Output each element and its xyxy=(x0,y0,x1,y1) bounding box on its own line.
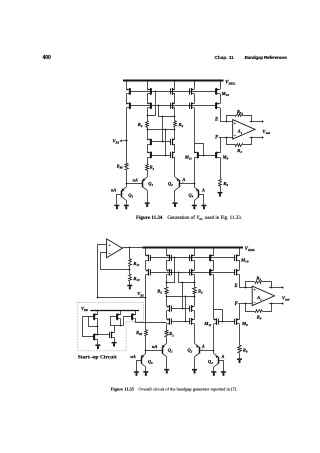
wire N1 source to ground fig35 xyxy=(97,339,99,344)
wire P1 drain to N1 fig35 xyxy=(97,319,99,335)
wire R6 to ground (fig34) xyxy=(220,186,222,192)
resistor R2 right (fig34) xyxy=(174,121,177,128)
wire Q3 base to ground (fig35) xyxy=(137,361,142,372)
pmos cascode col4 bottom (fig35) xyxy=(213,260,215,270)
svg-text:A: A xyxy=(221,354,225,359)
wire VB1 net fig35 xyxy=(98,297,146,299)
wire Q2 collector to ground (fig35) xyxy=(194,357,196,369)
wire output plus (fig34) xyxy=(250,121,263,123)
svg-text:400: 400 xyxy=(43,55,52,61)
wire R10 to ground fig35 xyxy=(129,281,131,284)
wire Q4 collector down (fig34) xyxy=(194,200,196,204)
resistor R2 right (fig35) xyxy=(193,288,197,294)
wire Q2 base to node A line (fig34) xyxy=(179,183,194,185)
wire M11 M9 gate line (fig35) xyxy=(218,321,235,323)
wire N2 source to ground fig35 xyxy=(114,337,116,342)
pmos mirror M10 top (fig34) xyxy=(220,81,222,89)
op-amp A1 (fig34) xyxy=(233,120,255,140)
svg-text:nA: nA xyxy=(130,354,135,359)
wire VDDL supply rail (fig35) xyxy=(143,247,244,249)
resistor R2 left (fig35) xyxy=(165,288,169,294)
svg-text:nA: nA xyxy=(133,177,138,182)
pmos mirror col3 top (fig34) xyxy=(174,81,176,89)
resistor R10 fig35 xyxy=(129,275,132,282)
resistor R1 (fig34) xyxy=(146,164,149,171)
ground at N2 fig35 xyxy=(112,342,117,344)
ground at Q4 base (fig35) xyxy=(221,371,226,373)
ground at Q2 (fig34) xyxy=(173,202,178,204)
resistor R11 fig35 xyxy=(129,259,132,267)
wire R4 to output (fig35) xyxy=(263,304,272,312)
pmos P2 startup fig35 xyxy=(120,310,122,315)
wire col2 to R2 left (fig35) xyxy=(166,274,168,287)
wire col4 drain down to M11 (fig34) xyxy=(194,108,196,153)
wire diode link row2 to col3 drain (fig35) xyxy=(179,273,195,283)
wire Q4 base to ground (fig35) xyxy=(219,361,224,372)
pmos mirror M10 top (fig35) xyxy=(239,248,241,256)
nmos right bottom (fig34) xyxy=(174,144,176,153)
resistor RM (fig34) xyxy=(125,164,129,170)
ground at Q2 (fig35) xyxy=(192,369,197,371)
pmos cascode M10 bottom (fig34) xyxy=(220,94,222,104)
resistor R3 (fig35) xyxy=(255,281,263,284)
transistor Q2 (fig35) xyxy=(195,343,200,347)
wire RM to node below (fig35) xyxy=(145,336,147,353)
wire output minus (fig34) xyxy=(250,137,263,139)
wire feedback bottom (fig35) xyxy=(246,304,255,312)
wire P2 drain down fig35 xyxy=(120,319,122,325)
wire col4 drain down to M11 (fig35) xyxy=(213,274,215,319)
wire P1 gate diode loop fig35 xyxy=(89,317,98,327)
pmos mirror col3 top (fig35) xyxy=(194,248,196,256)
wire nmos row3 gate line (fig35) xyxy=(171,308,190,310)
wire R4 to output (fig34) xyxy=(243,138,252,145)
wire diode link row2 to col3 drain (fig34) xyxy=(159,106,175,117)
pmos cascode M10 bottom (fig35) xyxy=(239,260,241,270)
pmos mirror col2 top (fig34) xyxy=(147,81,149,89)
wire R2 left to nmos (fig34) xyxy=(147,127,149,139)
resistor R6 (fig34) xyxy=(219,179,222,187)
wire col3 to R2 right (fig34) xyxy=(174,108,176,121)
wire node E to amp (fig35) xyxy=(240,287,253,289)
svg-text:E: E xyxy=(234,284,238,289)
pmos cascode col3 bottom (fig34) xyxy=(174,94,176,104)
ground at Q1 (fig34) xyxy=(145,202,150,204)
transistor M11 (fig35) xyxy=(214,319,217,321)
wire R3 to output (fig35) xyxy=(263,282,272,288)
pmos cascode col2 bottom (fig35) xyxy=(166,260,168,270)
op-amp A2 regulation amp fig35 xyxy=(107,239,123,258)
nmos left bottom (fig35) xyxy=(166,311,168,320)
nmos left bottom (fig34) xyxy=(147,144,149,153)
resistor R2 left (fig34) xyxy=(146,121,149,128)
svg-text:Bandgap References: Bandgap References xyxy=(245,55,288,60)
wire pmos row2 gate line (fig35) xyxy=(150,272,235,274)
wire col1 branch down (fig34) xyxy=(126,108,128,163)
wire VDD rail startup fig35 xyxy=(90,310,139,312)
nmos cascode right top (fig34) xyxy=(172,139,175,141)
wire col1 branch down (fig35) xyxy=(145,274,147,329)
op-amp A1 (fig35) xyxy=(252,286,274,306)
transistor Q2 (fig34) xyxy=(175,177,180,181)
start-up circuit dashed box fig35 xyxy=(78,302,143,351)
ground at Q4 collector (fig34) xyxy=(192,205,197,207)
wire feedback top (fig35) xyxy=(246,282,255,288)
wire feedback to A2 inverting input fig35 xyxy=(101,253,130,270)
pmos cascode col4 bottom (fig34) xyxy=(194,94,196,104)
wire R11 to R10 node fig35 xyxy=(129,266,131,274)
wire A2 output to VDDL rail fig35 xyxy=(122,247,142,249)
wire node E to amp (fig34) xyxy=(220,121,233,123)
ground below R10 fig35 xyxy=(127,285,132,287)
wire P3 gate tap fig35 xyxy=(124,317,132,326)
wire Q1 collector to ground (fig35) xyxy=(166,357,168,369)
pmos P3 startup fig35 xyxy=(135,310,137,315)
wire nmos row3 gate line (fig34) xyxy=(152,141,171,143)
transistor Q1 (fig35) xyxy=(162,343,167,347)
wire A2 noninverting input fig35 xyxy=(98,245,107,298)
wire M10 drain to node E (fig34) xyxy=(220,108,222,121)
transistor M9 (fig35) xyxy=(237,319,240,321)
wire node F to amp (fig34) xyxy=(219,137,233,139)
ground at Q3 base (fig34) xyxy=(114,205,119,207)
transistor Q3 (fig35) xyxy=(141,354,146,358)
pmos cascode col3 bottom (fig35) xyxy=(194,260,196,270)
wire Q4 base to ground (fig34) xyxy=(199,195,204,205)
pmos mirror col4 top (fig35) xyxy=(213,248,215,256)
pmos mirror col4 top (fig34) xyxy=(194,81,196,89)
wire nmos row3 gate tap (fig34) xyxy=(162,117,164,142)
transistor Q1 (fig34) xyxy=(143,177,148,181)
svg-text:Start–up Circuit: Start–up Circuit xyxy=(78,354,117,360)
wire nmos right to Q2 (fig34) xyxy=(174,157,176,177)
svg-text:VDDL: VDDL xyxy=(225,80,235,85)
ground at R6 (fig34) xyxy=(218,192,223,194)
wire R1 to Q1 (fig34) xyxy=(147,170,149,177)
wire startup node line fig35 xyxy=(110,325,124,327)
wire N2 gate to P1 drain fig35 xyxy=(98,334,110,336)
wire RM to node below (fig34) xyxy=(126,170,128,187)
transistor Q4 (fig34) xyxy=(194,187,199,191)
transistor M11 diode loop (fig34) xyxy=(195,144,204,156)
wire node F to M9 (fig35) xyxy=(239,304,241,320)
pmos cascode col1 bottom (fig34) xyxy=(126,94,128,104)
wire M10 drain to node E (fig35) xyxy=(239,274,241,287)
ground at R6 (fig35) xyxy=(237,358,242,360)
wire N2 drain up fig35 xyxy=(114,325,116,332)
resistor RM (fig35) xyxy=(145,330,148,337)
pmos cascode col2 bottom (fig34) xyxy=(147,94,149,104)
ground at Q4 collector (fig35) xyxy=(211,371,216,373)
wire R2 right to nmos (fig35) xyxy=(194,294,196,306)
wire R6 to ground (fig35) xyxy=(239,353,241,359)
svg-text:Figure 11.34 Generation of VB: Figure 11.34 Generation of VB1, used in … xyxy=(136,216,242,221)
wire VDDL supply rail (fig34) xyxy=(123,80,224,82)
resistor R3 (fig34) xyxy=(236,114,243,117)
wire Q1 collector to ground (fig34) xyxy=(147,190,149,202)
svg-text:nA: nA xyxy=(152,344,157,349)
wire node F to amp (fig35) xyxy=(238,303,252,305)
wire Q1 base line (fig34) xyxy=(126,183,142,185)
wire M11 M9 gate line (fig34) xyxy=(199,155,216,157)
pmos P1 startup diode-connected fig35 xyxy=(97,310,99,315)
nmos right bottom (fig35) xyxy=(194,311,196,320)
wire nmos right to Q2 (fig35) xyxy=(194,324,196,344)
wire nmos row4 gate line (fig35) xyxy=(171,321,190,323)
transistor M9 (fig34) xyxy=(217,152,220,154)
pmos mirror col1 top (fig34) xyxy=(126,81,128,89)
svg-text:nA: nA xyxy=(111,187,116,192)
ground at N1 fig35 xyxy=(95,344,100,346)
wire R2 bottoms tie line (fig35) xyxy=(167,296,195,298)
wire R2 bottoms tie line (fig34) xyxy=(147,129,175,131)
transistor Q3 (fig34) xyxy=(122,187,127,191)
wire Q2 collector to ground (fig34) xyxy=(174,190,176,202)
wire output plus (fig35) xyxy=(269,287,282,289)
nmos N1 startup fig35 xyxy=(95,334,98,336)
transistor M11 diode loop (fig35) xyxy=(214,310,223,322)
wire nmos left to R1 (fig35) xyxy=(166,324,168,331)
wire nmos row4 gate tap (fig34) xyxy=(165,130,167,155)
resistor R6 (fig35) xyxy=(238,346,242,353)
ground at Q3 collector (fig34) xyxy=(124,205,129,207)
svg-text:VDDL: VDDL xyxy=(245,247,255,252)
transistor M11 (fig34) xyxy=(194,152,197,154)
svg-text:Chap. 11: Chap. 11 xyxy=(215,55,235,60)
pmos mirror col1 top (fig35) xyxy=(145,248,147,256)
wire Q3 collector down (fig34) xyxy=(126,200,128,204)
wire node F to M9 (fig34) xyxy=(220,137,222,153)
ground at Q3 collector (fig35) xyxy=(143,371,148,373)
wire R3 to output (fig34) xyxy=(243,116,252,122)
wire nmos row4 gate tap (fig35) xyxy=(185,296,187,321)
wire M11 source to Q4 (fig34) xyxy=(194,157,196,187)
wire pmos row2 gate line (fig34) xyxy=(131,105,216,107)
wire M9 source to R6 (fig35) xyxy=(239,324,241,346)
nmos cascode left top (fig35) xyxy=(167,306,170,308)
wire A2 output to R11 fig35 xyxy=(129,248,131,259)
pmos mirror col2 top (fig35) xyxy=(166,248,168,256)
wire diode link row1 to col2 drain (fig34) xyxy=(148,92,156,116)
ground at Q4 base (fig34) xyxy=(201,205,206,207)
wire pmos row1 gate line (fig34) xyxy=(131,91,216,93)
svg-text:E: E xyxy=(214,118,218,123)
wire R1 to Q1 (fig35) xyxy=(166,337,168,344)
wire startup output to core fig35 xyxy=(136,319,167,323)
svg-text:A: A xyxy=(201,187,205,192)
wire R2 right to nmos (fig34) xyxy=(174,127,176,139)
wire M11 source to Q4 (fig35) xyxy=(213,324,215,354)
wire Q3 collector down (fig35) xyxy=(145,367,147,371)
wire col2 to R2 left (fig34) xyxy=(147,108,149,121)
nmos N2 startup fig35 xyxy=(111,332,114,334)
wire N1 gate loop fig35 xyxy=(83,317,94,337)
wire nmos left to R1 (fig34) xyxy=(147,157,149,164)
nmos cascode left top (fig34) xyxy=(147,139,150,141)
wire output minus (fig35) xyxy=(269,303,282,305)
ground at Q3 base (fig35) xyxy=(134,371,139,373)
wire R2 left to nmos (fig35) xyxy=(166,294,168,306)
svg-text:A: A xyxy=(181,177,185,182)
resistor R1 (fig35) xyxy=(165,331,169,337)
wire M9 source to R6 (fig34) xyxy=(220,157,222,179)
wire Q3 base to ground (fig34) xyxy=(117,195,122,205)
wire pmos row1 gate line (fig35) xyxy=(150,257,235,259)
wire nmos row4 gate line (fig34) xyxy=(152,155,171,157)
ground at Q1 (fig35) xyxy=(164,369,169,371)
wire Q1 base line (fig35) xyxy=(146,350,162,352)
svg-text:Figure 11.35 Overall circuit: Figure 11.35 Overall circuit of the band… xyxy=(111,387,238,392)
svg-text:A: A xyxy=(201,343,205,348)
wire Q4 collector down (fig35) xyxy=(213,367,215,371)
pmos cascode col1 bottom (fig35) xyxy=(145,260,147,270)
wire Q2 base to node A line (fig35) xyxy=(199,350,214,352)
wire col3 to R2 right (fig35) xyxy=(194,274,196,287)
resistor R4 (fig35) xyxy=(255,310,263,313)
transistor Q4 (fig35) xyxy=(214,354,219,358)
wire nmos row3 gate tap (fig35) xyxy=(182,283,184,308)
wire feedback bottom (fig34) xyxy=(227,138,236,145)
wire P2 gate tap fig35 xyxy=(111,317,117,326)
resistor R4 (fig34) xyxy=(236,144,243,147)
wire feedback top (fig34) xyxy=(227,116,236,122)
wire diode link row1 to col2 drain (fig35) xyxy=(167,258,175,283)
nmos cascode right top (fig35) xyxy=(192,306,195,308)
